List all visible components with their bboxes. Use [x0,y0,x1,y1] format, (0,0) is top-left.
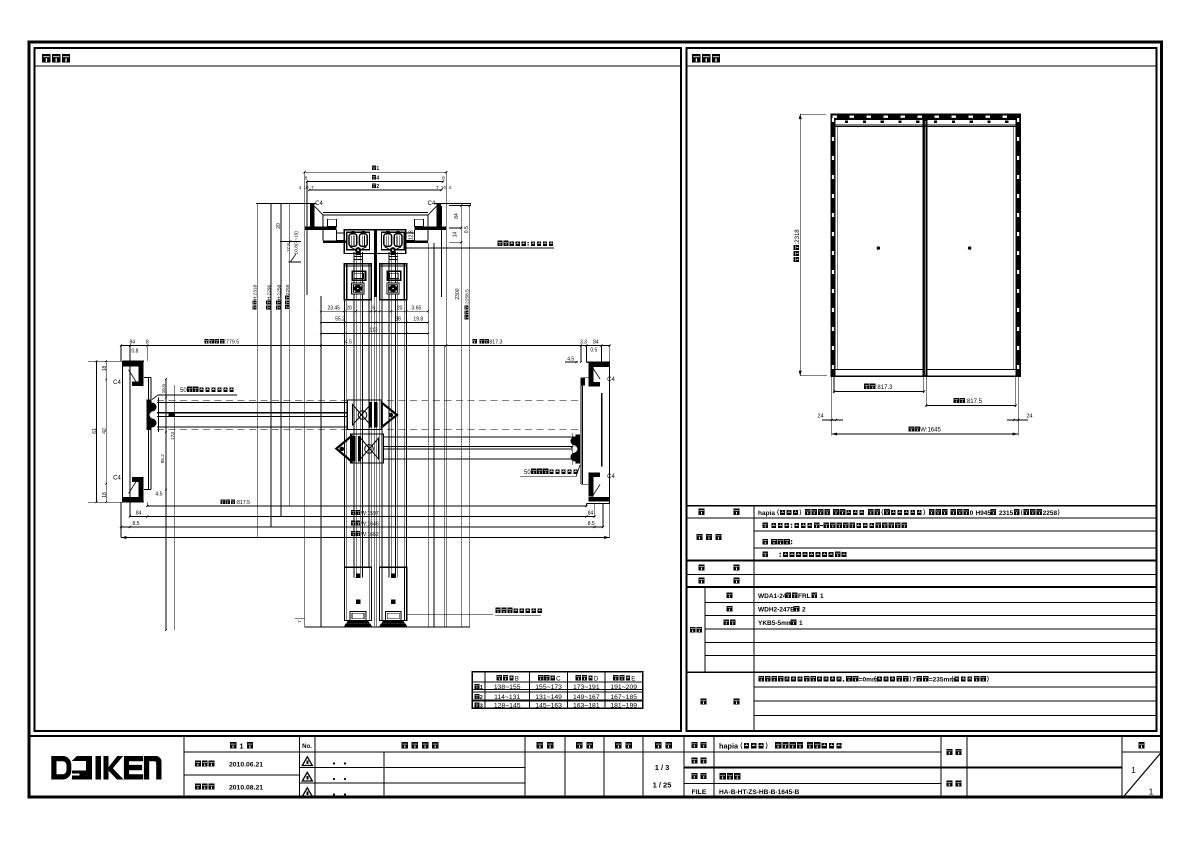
svg-text:2010.08.21: 2010.08.21 [229,785,263,792]
svg-text:FILE: FILE [692,789,707,796]
svg-text:50: 50 [524,470,531,476]
svg-text:138~155: 138~155 [494,684,521,691]
svg-text:8: 8 [442,175,445,181]
svg-text:167~185: 167~185 [610,694,637,701]
svg-text:No.: No. [302,744,312,750]
svg-text:10: 10 [441,185,447,190]
svg-text:84: 84 [130,340,136,346]
svg-text:0.8: 0.8 [132,349,139,355]
svg-text:8.5: 8.5 [588,521,595,527]
svg-text::817.5: :817.5 [236,500,251,506]
svg-text:E: E [631,675,635,682]
svg-text:1: 1 [799,620,803,627]
svg-text:113: 113 [370,328,378,334]
svg-text:15.6: 15.6 [161,384,167,394]
svg-text:12.8: 12.8 [408,230,414,240]
svg-text:H945: H945 [975,510,991,517]
svg-text:FRL: FRL [798,593,811,600]
svg-text:8: 8 [305,175,308,181]
svg-text:50: 50 [180,388,187,394]
svg-text:128~145: 128~145 [494,702,521,709]
svg-text:C4: C4 [113,476,121,482]
svg-text:0: 0 [970,510,974,517]
svg-text::779.5: :779.5 [225,340,240,346]
svg-text:1 / 3: 1 / 3 [655,763,670,772]
svg-text:hapia: hapia [719,742,739,751]
svg-text:B: B [515,675,519,682]
svg-text:W:1597: W:1597 [361,511,379,517]
svg-text:23.45: 23.45 [327,305,340,311]
svg-text:24: 24 [817,414,823,420]
svg-text:W:1645: W:1645 [920,428,941,434]
svg-text:42: 42 [102,428,108,434]
svg-text:173: 173 [170,432,176,440]
svg-text:155~173: 155~173 [535,684,562,691]
svg-text:3.65: 3.65 [412,305,422,311]
svg-text:1: 1 [1149,787,1154,797]
svg-text:181~199: 181~199 [610,702,637,709]
svg-text:W:1645: W:1645 [361,521,379,527]
svg-text:3.3: 3.3 [580,340,587,346]
svg-text:W:1662: W:1662 [361,532,379,538]
svg-text:8.5: 8.5 [133,521,140,527]
svg-text:145~163: 145~163 [535,702,562,709]
svg-text:4.5: 4.5 [345,340,352,346]
svg-text:24: 24 [1026,414,1032,420]
svg-text:10: 10 [303,185,309,190]
svg-text:2258: 2258 [1043,510,1058,517]
svg-text:3: 3 [480,703,483,709]
svg-text:7: 7 [912,677,916,684]
svg-text:173~191: 173~191 [573,684,600,691]
svg-text:10.8(7~19): 10.8(7~19) [293,231,299,255]
svg-text:hapia: hapia [758,510,775,517]
svg-text:6: 6 [372,305,375,311]
svg-text:=235mm: =235mm [929,677,955,684]
svg-text:84: 84 [588,511,594,517]
svg-text:C4: C4 [607,377,615,383]
svg-text:95.2: 95.2 [160,454,166,464]
svg-text:D: D [594,675,599,682]
svg-text:17.8: 17.8 [286,243,291,252]
svg-text:2259: 2259 [285,284,291,295]
svg-text:1 / 25: 1 / 25 [653,781,672,790]
svg-text:84: 84 [136,511,142,517]
svg-text::817.3: :817.3 [876,385,893,391]
svg-text:18: 18 [102,492,108,498]
svg-text:817.3: 817.3 [489,340,502,346]
svg-text:2: 2 [802,607,806,614]
svg-text:1: 1 [1131,765,1136,775]
svg-text:149~167: 149~167 [573,694,600,701]
svg-text:1: 1 [376,166,379,172]
svg-text:2: 2 [376,184,379,190]
svg-text:2300: 2300 [455,288,461,299]
svg-text:114~131: 114~131 [494,694,520,701]
svg-text:4.5: 4.5 [156,492,163,498]
svg-text:C4: C4 [607,474,615,480]
svg-text:0.5: 0.5 [590,348,597,354]
svg-text:2010.06.21: 2010.06.21 [229,762,263,769]
svg-text:2: 2 [480,695,483,701]
svg-text:163~181: 163~181 [573,702,600,709]
svg-text:20: 20 [276,223,282,229]
svg-text:131~149: 131~149 [535,694,562,701]
svg-text:2315: 2315 [999,510,1014,517]
svg-text:18: 18 [102,366,108,372]
svg-text:YKB5-5mm: YKB5-5mm [758,620,793,627]
svg-text:C4: C4 [428,201,436,207]
svg-text:C4: C4 [113,380,121,386]
svg-text:1: 1 [820,593,824,600]
svg-text:C: C [556,675,561,682]
svg-text:H:2258: H:2258 [276,284,282,300]
svg-text:1: 1 [239,742,243,751]
svg-text:H:2318: H:2318 [253,284,259,300]
svg-text:H:2296: H:2296 [266,284,272,300]
svg-text:38: 38 [395,317,401,323]
svg-text:4: 4 [376,175,379,181]
svg-text:14: 14 [453,232,459,238]
svg-text:1: 1 [480,685,483,691]
svg-text:19.8: 19.8 [413,317,423,323]
svg-text:20: 20 [346,305,352,311]
svg-text:WDH2-247B: WDH2-247B [758,607,795,614]
svg-text:55.2: 55.2 [335,317,345,323]
svg-text:61: 61 [92,428,98,434]
svg-text:HA-B-HT-ZS-HB-B-1645-B: HA-B-HT-ZS-HB-B-1645-B [719,789,799,796]
svg-text:20: 20 [397,305,403,311]
svg-text:84: 84 [593,340,599,346]
svg-text:4.5: 4.5 [567,357,574,363]
svg-text:WDA1-24: WDA1-24 [758,593,787,600]
svg-text::2258.5: :2258.5 [465,289,471,305]
svg-text:191~209: 191~209 [610,684,637,691]
svg-text:8: 8 [146,340,149,346]
svg-text::2318: :2318 [795,229,801,245]
svg-text:84: 84 [454,213,460,219]
svg-text:C4: C4 [315,201,323,207]
svg-text:0.5: 0.5 [464,226,470,233]
svg-text::817.5: :817.5 [965,399,982,405]
